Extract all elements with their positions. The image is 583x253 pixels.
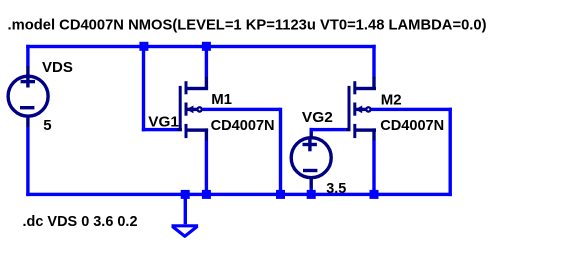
svg-text:.dc VDS 0 3.6 0.2: .dc VDS 0 3.6 0.2 — [23, 213, 138, 230]
svg-text:VG2: VG2 — [302, 109, 333, 126]
svg-text:M2: M2 — [381, 91, 402, 108]
svg-text:3.5: 3.5 — [326, 180, 346, 197]
svg-text:.model CD4007N NMOS(LEVEL=1 KP: .model CD4007N NMOS(LEVEL=1 KP=1123u VT0… — [8, 16, 487, 33]
svg-text:VDS: VDS — [42, 59, 73, 76]
svg-text:VG1: VG1 — [148, 113, 179, 130]
svg-text:M1: M1 — [211, 91, 232, 108]
svg-text:CD4007N: CD4007N — [211, 117, 275, 134]
svg-text:5: 5 — [43, 117, 51, 134]
svg-text:CD4007N: CD4007N — [380, 117, 444, 134]
